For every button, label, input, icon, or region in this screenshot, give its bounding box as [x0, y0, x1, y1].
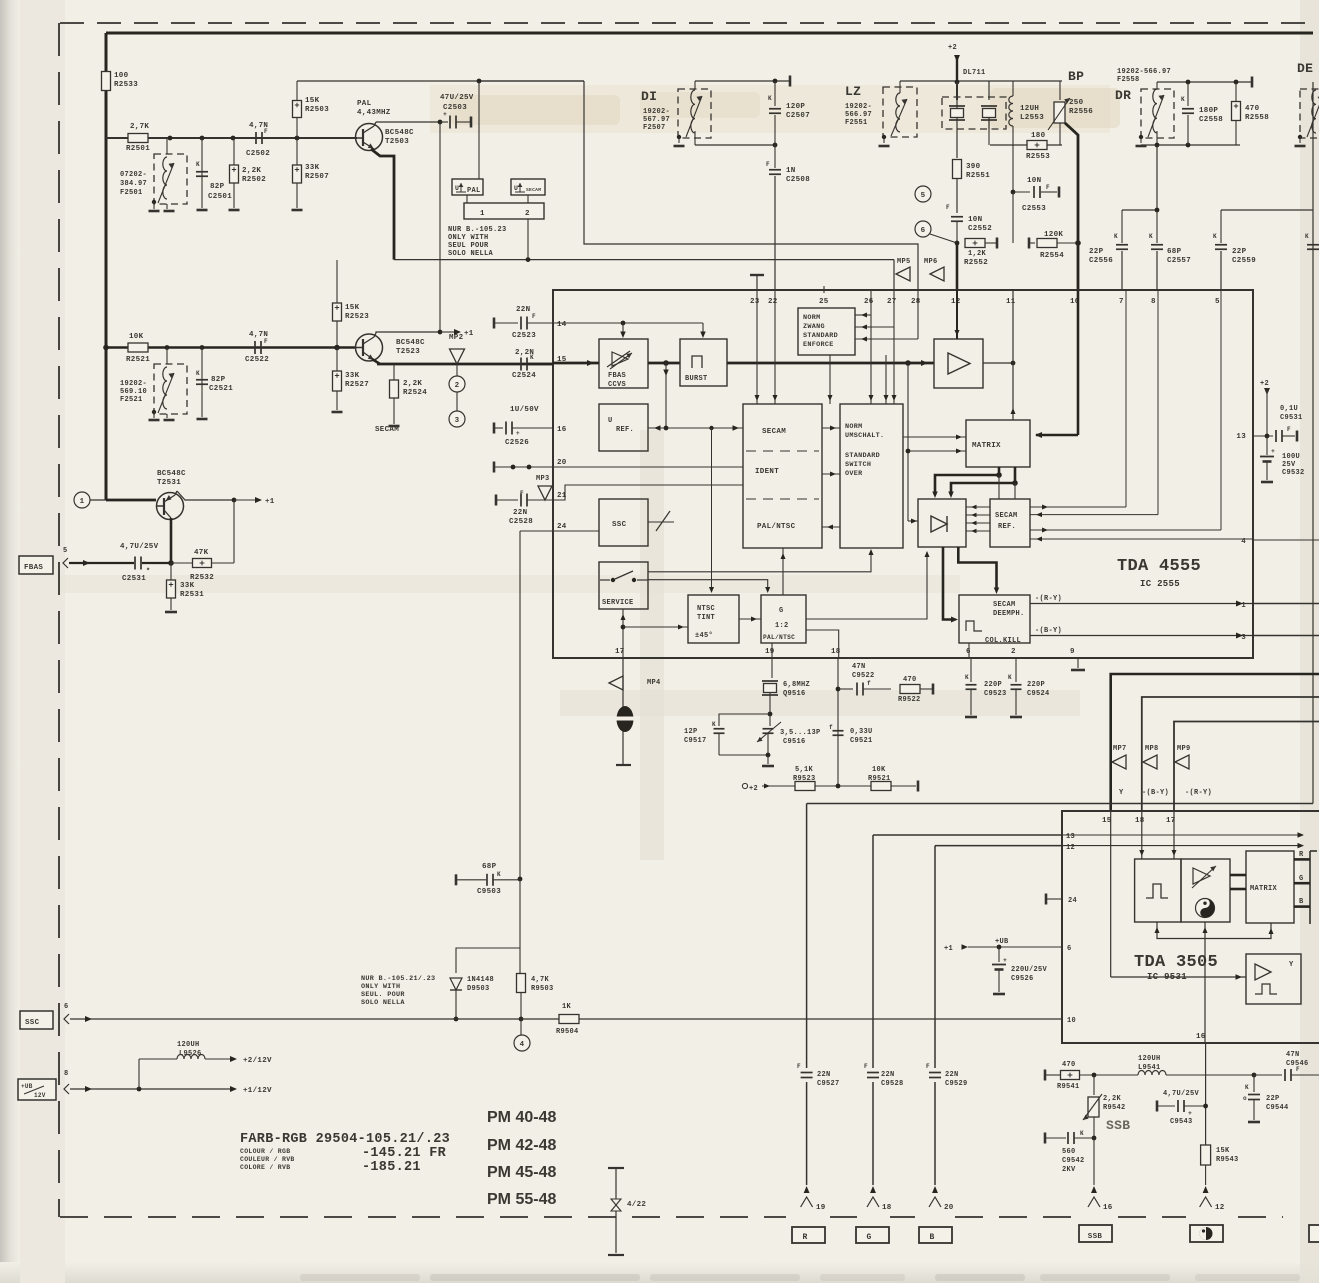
offpage connector 4/22	[608, 1167, 624, 1169]
node junction dr4	[1186, 143, 1191, 148]
resistor R2556	[1059, 81, 1061, 100]
svg-text:PAL: PAL	[357, 100, 372, 108]
block SECAM REF	[990, 499, 1030, 547]
svg-text:5: 5	[921, 192, 926, 200]
wire pin11 internal	[1012, 290, 1014, 420]
svg-text:PM 40-48: PM 40-48	[487, 1109, 556, 1126]
svg-text:-(B-Y): -(B-Y)	[1035, 627, 1062, 635]
block SECAM/IDENT/PALNTSC	[743, 404, 822, 548]
svg-text:R2551: R2551	[966, 172, 990, 180]
svg-text:±45°: ±45°	[695, 631, 713, 640]
svg-text:MP7: MP7	[1113, 745, 1127, 753]
wire pin24 external	[520, 530, 553, 532]
svg-text:R9543: R9543	[1216, 1156, 1239, 1164]
svg-text:PAL/NTSC: PAL/NTSC	[763, 634, 795, 641]
svg-text:C9532: C9532	[1282, 469, 1305, 477]
wire g out1	[806, 552, 927, 619]
svg-text:K: K	[768, 95, 772, 102]
svg-text:6: 6	[1067, 945, 1072, 953]
wire BP bottom	[990, 144, 1062, 146]
svg-text:K: K	[497, 871, 501, 878]
node jm2	[1012, 480, 1018, 486]
node j18a	[836, 687, 841, 692]
box connector G	[856, 1227, 889, 1243]
svg-text:U: U	[455, 185, 459, 192]
wire T2523 emitter thick	[372, 359, 380, 364]
wire BP right branch thick	[1065, 123, 1078, 290]
svg-text:220U/25V: 220U/25V	[1011, 966, 1048, 974]
bus R-Y feed	[1174, 722, 1319, 812]
svg-text:SECAM: SECAM	[526, 187, 541, 193]
svg-text:+: +	[1188, 1110, 1192, 1117]
svg-text:PM 45-48: PM 45-48	[487, 1164, 556, 1181]
svg-text:PAL: PAL	[467, 187, 481, 195]
wire feedback loop	[1157, 922, 1271, 939]
capacitor C2526 pin16	[493, 423, 496, 434]
svg-text:9: 9	[1070, 648, 1075, 656]
svg-text:K: K	[712, 721, 716, 728]
node j20a	[511, 465, 516, 470]
wire thin drops secamref	[998, 475, 1000, 499]
wire +2 row	[742, 783, 747, 788]
node jub2	[997, 945, 1002, 950]
svg-text:10K: 10K	[872, 766, 886, 774]
wire ntsc tint feed	[709, 426, 713, 430]
svg-text:12: 12	[1215, 1204, 1225, 1212]
bus R line	[807, 803, 1313, 805]
wire DI top	[695, 80, 790, 82]
box connector B	[919, 1227, 952, 1243]
dashed border frame left	[58, 23, 60, 1217]
svg-text:G: G	[1299, 875, 1304, 883]
svg-text:566.97: 566.97	[845, 111, 872, 119]
svg-text:26: 26	[864, 298, 874, 306]
capacitor C2556	[1121, 210, 1123, 243]
svg-text:+UB: +UB	[995, 938, 1009, 946]
capacitor C9503	[455, 874, 458, 885]
svg-text:R9542: R9542	[1103, 1104, 1126, 1112]
svg-text:G: G	[866, 1233, 871, 1242]
svg-text:2KV: 2KV	[1062, 1166, 1076, 1174]
svg-text:F: F	[1296, 1066, 1300, 1073]
svg-text:C2503: C2503	[443, 104, 467, 112]
resistor R2551	[956, 118, 958, 158]
svg-text:UMSCHALT.: UMSCHALT.	[845, 432, 884, 440]
block NORM ZWANG	[798, 308, 855, 355]
svg-text:MP4: MP4	[647, 679, 661, 687]
svg-text:68P: 68P	[1167, 248, 1182, 256]
node j9503	[518, 877, 523, 882]
svg-text:BP: BP	[1068, 69, 1084, 84]
svg-text:R2501: R2501	[126, 145, 150, 153]
svg-text:15K: 15K	[305, 97, 320, 105]
block NORM UMSCHALT	[840, 404, 903, 548]
node jssb2	[1252, 1073, 1257, 1078]
svg-text:R2533: R2533	[114, 81, 138, 89]
node junction c2503	[438, 120, 443, 125]
wire switch2 down	[527, 219, 529, 260]
wire pin12 drop thick	[956, 243, 959, 290]
svg-text:K: K	[1114, 233, 1118, 240]
capacitor C9517	[719, 714, 770, 726]
svg-text:47U/25V: 47U/25V	[440, 94, 474, 102]
svg-text:15K: 15K	[1216, 1147, 1230, 1155]
svg-text:47N: 47N	[852, 663, 866, 671]
svg-text:F: F	[766, 161, 770, 168]
connector circle 2	[449, 376, 465, 392]
capacitor C9524	[1015, 658, 1017, 682]
svg-text:R2523: R2523	[345, 313, 369, 321]
svg-text:569.10: 569.10	[120, 388, 147, 396]
svg-text:MATRIX: MATRIX	[1250, 885, 1278, 893]
svg-text:F2507: F2507	[643, 124, 666, 132]
box connector video	[1190, 1225, 1223, 1242]
svg-text:REF.: REF.	[616, 426, 634, 434]
svg-text:19202-: 19202-	[120, 380, 147, 388]
svg-text:-(B-Y): -(B-Y)	[1142, 789, 1169, 797]
node j18b	[836, 784, 841, 789]
capacitor C2503	[440, 121, 448, 123]
capacitor C9521	[833, 730, 844, 732]
block saturation	[1181, 859, 1230, 922]
svg-text:C2502: C2502	[246, 150, 270, 158]
svg-text:82P: 82P	[211, 376, 226, 384]
svg-text:19: 19	[765, 648, 775, 656]
svg-text:F: F	[926, 1063, 930, 1070]
ground R2524	[389, 425, 400, 428]
resistor R9504	[559, 1015, 579, 1024]
svg-text:384.97: 384.97	[120, 180, 147, 188]
svg-text:18: 18	[831, 648, 841, 656]
ground R2531	[165, 611, 177, 614]
svg-text:33K: 33K	[345, 372, 360, 380]
wire T2531 emitter	[170, 518, 173, 563]
capacitor C9527	[801, 1072, 813, 1074]
node j14	[621, 321, 626, 326]
ground R2527	[332, 411, 343, 414]
svg-text:C9543: C9543	[1170, 1118, 1193, 1126]
svg-text:R9521: R9521	[868, 775, 891, 783]
svg-text:F: F	[264, 128, 268, 135]
node jm1	[996, 472, 1002, 478]
wire g up link	[782, 548, 784, 595]
wire pin25 internal	[829, 355, 831, 404]
node mp2 stem	[456, 364, 458, 376]
resistor R2552	[965, 239, 985, 248]
svg-text:19202-: 19202-	[845, 103, 872, 111]
svg-text:220P: 220P	[984, 681, 1002, 689]
svg-text:K: K	[1181, 96, 1185, 103]
svg-text:1U/50V: 1U/50V	[510, 406, 539, 414]
svg-text:SWITCH: SWITCH	[845, 461, 871, 469]
svg-text:PM 55-48: PM 55-48	[487, 1191, 556, 1208]
node junction b2	[200, 345, 205, 350]
svg-text:TDA 4555: TDA 4555	[1117, 557, 1201, 576]
svg-text:22: 22	[768, 298, 778, 306]
node junction upal	[477, 79, 482, 84]
svg-text:K: K	[530, 354, 534, 361]
svg-text:8: 8	[64, 1070, 69, 1078]
svg-text:SSC: SSC	[25, 1019, 40, 1027]
svg-text:R9503: R9503	[531, 985, 554, 993]
block amp (triangle)	[934, 339, 983, 388]
svg-text:1: 1	[80, 498, 85, 506]
box FBAS input	[19, 556, 53, 574]
node junction r2552	[955, 241, 960, 246]
svg-text:DI: DI	[641, 89, 657, 104]
wire PAL/SECAM select to pin27	[394, 259, 894, 261]
svg-text:B: B	[1299, 898, 1304, 906]
node junction b1	[165, 345, 170, 350]
node junction a4	[295, 136, 300, 141]
wire T2531 collector	[177, 491, 234, 500]
svg-text:R2521: R2521	[126, 356, 150, 364]
node j15c	[906, 449, 911, 454]
wire T2503 emitter drop	[371, 149, 394, 260]
connector circle 3	[449, 411, 465, 427]
wire upal drop	[478, 81, 480, 122]
wire pin23 internal	[756, 290, 758, 404]
svg-text:R2502: R2502	[242, 176, 266, 184]
svg-text:12V: 12V	[34, 1092, 46, 1099]
svg-text:NTSC: NTSC	[697, 605, 715, 613]
wire FBAS in	[69, 562, 134, 564]
svg-text:22N: 22N	[516, 306, 530, 314]
svg-text:NUR B.-105.21/.23: NUR B.-105.21/.23	[361, 975, 435, 983]
svg-text:BURST: BURST	[685, 375, 708, 383]
capacitor C2531	[134, 557, 136, 570]
crystal X1	[956, 82, 958, 100]
block Y amp	[1246, 954, 1301, 1004]
svg-text:12P: 12P	[684, 728, 698, 736]
wire T2523 collector	[376, 332, 440, 333]
svg-text:SOLO NELLA: SOLO NELLA	[361, 999, 405, 1007]
svg-text:*: *	[146, 568, 151, 576]
capacitor C9529	[929, 1072, 941, 1074]
svg-text:22P: 22P	[1266, 1095, 1280, 1103]
resistor R2523	[336, 260, 338, 303]
wire secamref-demod arrows	[966, 506, 990, 508]
svg-text:1N: 1N	[786, 167, 796, 175]
wire pin8 internal	[1157, 290, 1159, 515]
block SSC	[599, 499, 648, 546]
svg-text:F2521: F2521	[120, 396, 143, 404]
node j15a	[663, 360, 669, 366]
wire mp4 end	[616, 764, 631, 766]
svg-text:R2553: R2553	[1026, 153, 1050, 161]
svg-text:180: 180	[1031, 132, 1046, 140]
svg-text:7: 7	[1119, 298, 1124, 306]
yin-yang contrast symbol	[1196, 899, 1215, 918]
svg-text:COL.KILL: COL.KILL	[985, 637, 1021, 645]
svg-text:22N: 22N	[945, 1071, 959, 1079]
svg-text:FARB-RGB 29504-105.21/.23: FARB-RGB 29504-105.21/.23	[240, 1132, 450, 1147]
bus G line	[873, 834, 1062, 836]
svg-text:MP9: MP9	[1177, 745, 1191, 753]
svg-text:SEUL POUR: SEUL POUR	[448, 242, 489, 250]
svg-text:R2527: R2527	[345, 381, 369, 389]
wire pin17 internal 3505	[1173, 811, 1175, 859]
svg-text:F2558: F2558	[1117, 76, 1140, 84]
wire pin16 internal	[553, 427, 648, 429]
svg-text:4,7U/25V: 4,7U/25V	[1163, 1090, 1200, 1098]
svg-text:SECAM: SECAM	[995, 512, 1018, 520]
svg-text:R2552: R2552	[964, 259, 988, 267]
svg-text:R9523: R9523	[793, 775, 816, 783]
svg-text:K: K	[1245, 1084, 1249, 1091]
svg-text:18: 18	[882, 1204, 892, 1212]
svg-text:MP3: MP3	[536, 475, 550, 483]
svg-text:+2: +2	[1260, 380, 1269, 388]
svg-text:4,7K: 4,7K	[531, 976, 550, 984]
svg-text:1,2K: 1,2K	[968, 250, 987, 258]
box connector R	[792, 1227, 825, 1243]
diode D9503	[450, 978, 462, 990]
svg-text:SECAM: SECAM	[375, 426, 399, 434]
svg-text:G: G	[779, 607, 784, 615]
svg-text:C9531: C9531	[1280, 414, 1303, 422]
resistor R2503	[296, 81, 298, 101]
resistor R9503	[519, 948, 521, 974]
wire C2503 branch down	[439, 122, 441, 332]
svg-text:C9526: C9526	[1011, 975, 1034, 983]
capacitor C2523 pin14	[493, 318, 496, 329]
wire pin16 drop	[1205, 1043, 1207, 1146]
svg-text:2,2K: 2,2K	[242, 167, 261, 175]
node j9503c	[519, 1017, 524, 1022]
svg-text:24: 24	[1068, 897, 1077, 905]
wire pin10 internal thick	[1077, 290, 1080, 435]
wire pin23 stub	[756, 274, 759, 277]
pin arrow R 19	[804, 1186, 810, 1193]
dashed border frame top	[60, 22, 1316, 24]
wire UB row	[70, 1088, 232, 1090]
wire circle2-3	[456, 392, 458, 411]
wire x584 rail to pin28	[584, 81, 918, 290]
wire secam-norm arrows	[822, 427, 840, 429]
svg-text:F: F	[797, 1063, 801, 1070]
resistor R2502	[233, 138, 235, 208]
wire pin13 external	[1253, 435, 1273, 437]
transistor T2531	[157, 493, 184, 520]
wire pin26 internal	[870, 290, 872, 404]
wire demod out thick B	[958, 547, 996, 589]
wire matrix out1 thick	[935, 467, 999, 495]
wire into demod box	[908, 520, 918, 522]
svg-text:F: F	[1046, 184, 1050, 191]
wire matrix R out	[1294, 858, 1310, 861]
capacitor C2524	[520, 358, 522, 371]
svg-text:16: 16	[1103, 1204, 1113, 1212]
svg-text:6: 6	[921, 227, 926, 235]
capacitor C2502	[255, 132, 257, 144]
svg-text:DEEMPH.: DEEMPH.	[993, 610, 1025, 618]
svg-text:1:2: 1:2	[775, 622, 789, 630]
svg-text:C2552: C2552	[968, 225, 992, 233]
svg-text:SEUL. POUR: SEUL. POUR	[361, 991, 405, 999]
svg-text:SSB: SSB	[1088, 1233, 1103, 1241]
wire demod out thick A	[943, 547, 952, 620]
block pulse	[1135, 859, 1181, 922]
wire pin1 external	[1253, 603, 1319, 605]
svg-text:180P: 180P	[1199, 107, 1218, 115]
capacitor edge partial	[1307, 244, 1319, 246]
svg-text:C9528: C9528	[881, 1080, 904, 1088]
svg-text:28: 28	[911, 298, 921, 306]
ground DR	[1139, 135, 1143, 139]
svg-text:15K: 15K	[345, 304, 360, 312]
svg-text:F: F	[264, 338, 268, 345]
coil L9541	[1138, 1071, 1166, 1076]
svg-text:6,8MHZ: 6,8MHZ	[783, 681, 810, 689]
svg-text:BC548C: BC548C	[385, 129, 414, 137]
wire rail y81 segment	[479, 80, 584, 82]
wire pin14 internal	[553, 322, 703, 324]
coil L9526	[138, 1059, 140, 1089]
wire pin7 internal	[1125, 290, 1127, 507]
resistor R2507	[293, 165, 302, 183]
svg-text:33K: 33K	[180, 582, 195, 590]
svg-text:+2/12V: +2/12V	[243, 1057, 272, 1065]
capacitor C9526	[998, 947, 1000, 962]
svg-text:MP5: MP5	[897, 258, 911, 266]
pin 24 stub	[1045, 894, 1048, 905]
svg-text:C9529: C9529	[945, 1080, 968, 1088]
filter F2501	[154, 154, 187, 204]
node junction r2554	[1075, 240, 1081, 246]
svg-text:120UH: 120UH	[1138, 1055, 1161, 1063]
svg-text:2,7K: 2,7K	[130, 123, 149, 131]
block MATRIX	[966, 420, 1030, 467]
wire DR bottom	[1156, 131, 1158, 145]
svg-text:ONLY WITH: ONLY WITH	[448, 234, 489, 242]
wire pin4 external	[1253, 539, 1319, 541]
wire pin19 internal	[771, 643, 773, 658]
ground LZ	[882, 135, 886, 139]
svg-text:MATRIX: MATRIX	[972, 442, 1001, 450]
svg-text:MP2: MP2	[449, 334, 464, 342]
svg-text:33K: 33K	[305, 164, 320, 172]
svg-text:C9521: C9521	[850, 737, 873, 745]
wire g out2 pin18	[806, 630, 839, 658]
svg-text:TINT: TINT	[697, 614, 715, 622]
node junction a2	[200, 136, 205, 141]
svg-text:470: 470	[1245, 105, 1260, 113]
svg-text:C2523: C2523	[512, 332, 536, 340]
bus Y feed thick	[1111, 674, 1319, 811]
svg-text:C2508: C2508	[786, 176, 810, 184]
box connector edge partial	[1309, 1225, 1319, 1242]
wire pin27 internal	[893, 290, 895, 404]
svg-text:L9541: L9541	[1138, 1064, 1161, 1072]
svg-text:K: K	[1008, 674, 1012, 681]
svg-text:IC 2555: IC 2555	[1140, 579, 1180, 589]
svg-text:16: 16	[557, 426, 567, 434]
resistor R9522	[900, 685, 920, 694]
svg-text:SSB: SSB	[1106, 1118, 1130, 1133]
svg-text:+1: +1	[464, 330, 474, 338]
svg-text:12: 12	[951, 298, 961, 306]
svg-text:Y: Y	[1119, 789, 1124, 797]
node j15b	[905, 360, 911, 366]
svg-text:SECAM: SECAM	[993, 601, 1016, 609]
svg-text:ENFORCE: ENFORCE	[803, 341, 834, 349]
svg-text:f: f	[867, 680, 871, 687]
capacitor C2552	[951, 216, 963, 218]
crystal Q9516	[771, 658, 773, 678]
svg-text:+1: +1	[944, 945, 953, 953]
svg-text:R: R	[802, 1233, 807, 1242]
